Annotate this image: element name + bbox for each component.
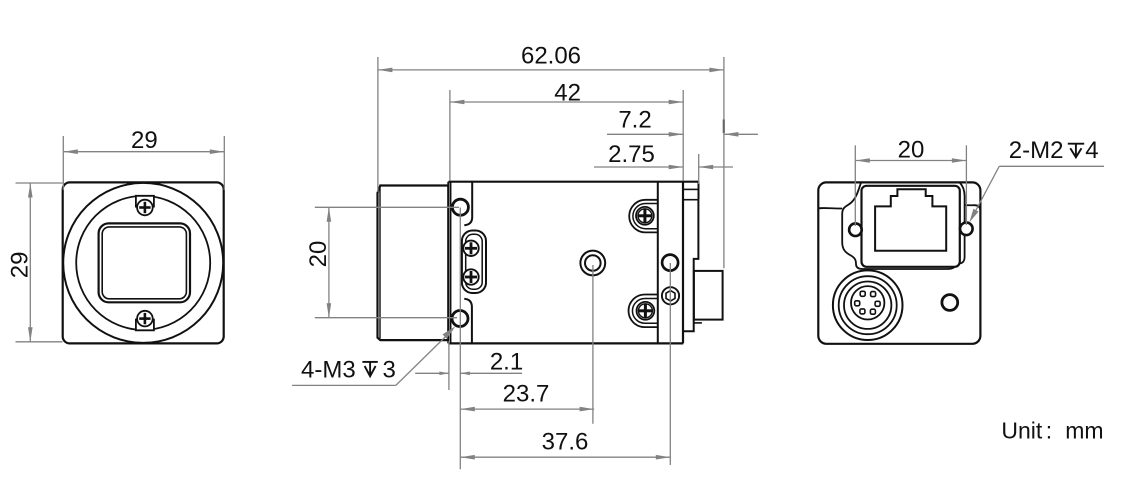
svg-text:7.2: 7.2 bbox=[618, 107, 651, 134]
connector pins bbox=[855, 291, 880, 314]
svg-text:2-M2: 2-M2 bbox=[1009, 137, 1064, 164]
label 4-M3 depth 3 bbox=[301, 357, 396, 384]
top-right screw pad bbox=[629, 200, 658, 233]
camera body outline bbox=[448, 182, 698, 344]
bottom screw cross bbox=[139, 313, 150, 324]
svg-text:37.6: 37.6 bbox=[542, 428, 589, 455]
dimension 29 horizontal (front top) bbox=[63, 136, 224, 190]
right ear line bbox=[965, 205, 981, 210]
tripod mount hole bbox=[580, 251, 605, 276]
dimension 20 (side view) bbox=[315, 207, 459, 317]
svg-text:2.1: 2.1 bbox=[490, 349, 523, 376]
front plate right edge lower bbox=[464, 299, 472, 344]
body bottom edge bbox=[448, 342, 683, 344]
dimension 42 bbox=[450, 90, 683, 181]
top screw tab bbox=[136, 196, 154, 216]
front body square bbox=[63, 182, 224, 343]
svg-text:29: 29 bbox=[7, 252, 34, 279]
svg-text:4: 4 bbox=[1085, 137, 1098, 164]
front plate right edge upper bbox=[464, 182, 472, 226]
M2 screw hole right bbox=[960, 223, 973, 236]
rear boss outline bbox=[842, 182, 964, 269]
island screw upper bbox=[463, 241, 478, 256]
M2 screw hole left bbox=[849, 223, 862, 236]
svg-text:2.75: 2.75 bbox=[608, 141, 655, 168]
rear body bbox=[818, 182, 980, 343]
dimension 37.6 bbox=[460, 263, 670, 465]
dimension 2.75 bbox=[594, 154, 733, 184]
dimension 29 vertical (front left) bbox=[16, 183, 63, 342]
rear mid profile bbox=[683, 200, 698, 332]
bottom-right screw bbox=[637, 302, 655, 320]
dimension 20 (rear) bbox=[855, 145, 966, 226]
top-right screw bbox=[636, 207, 654, 225]
depth symbol bbox=[1068, 144, 1084, 158]
dimension 62.06 bbox=[378, 57, 724, 268]
leader 2-M2 bbox=[972, 166, 1104, 218]
left ear line bbox=[818, 207, 842, 209]
RJ45 plate bbox=[862, 186, 960, 267]
label 2-M2 depth 4 bbox=[1009, 137, 1099, 164]
svg-text:20: 20 bbox=[305, 241, 332, 268]
front plate hole top (M3) bbox=[452, 199, 468, 215]
top screw cross bbox=[139, 202, 150, 213]
power connector rings bbox=[833, 270, 903, 340]
front plate front face bbox=[447, 182, 449, 344]
rear connector block bbox=[694, 271, 723, 323]
bottom screw tab bbox=[136, 311, 154, 330]
dimension 23.7 bbox=[460, 265, 594, 424]
svg-text:3: 3 bbox=[383, 357, 396, 384]
lens flange outer circle bbox=[63, 183, 223, 343]
rear strip line bbox=[657, 182, 659, 344]
black tick top right bbox=[723, 120, 725, 134]
front plate hole bottom (M3) bbox=[452, 311, 468, 327]
sensor window outer bbox=[99, 223, 190, 302]
svg-text:62.06: 62.06 bbox=[521, 42, 581, 69]
leader 4-M3 bbox=[292, 330, 453, 386]
lens barrel bbox=[378, 186, 449, 341]
island screw lower bbox=[463, 269, 478, 284]
front plate screw island bbox=[462, 231, 486, 294]
svg-text:29: 29 bbox=[131, 127, 158, 154]
body top edge bbox=[448, 181, 698, 183]
rear strip hex socket bbox=[662, 287, 679, 304]
svg-text:23.7: 23.7 bbox=[503, 380, 550, 407]
lens mount inner circle bbox=[76, 196, 210, 330]
dimension 2.1 bbox=[415, 208, 522, 470]
bottom-right screw pad bbox=[629, 295, 658, 328]
RJ45 jack opening bbox=[875, 189, 946, 251]
rear top block bbox=[683, 182, 699, 200]
body rear face bbox=[682, 182, 684, 344]
aux hole bbox=[942, 295, 958, 311]
sensor window inner bbox=[102, 227, 186, 299]
svg-text:20: 20 bbox=[898, 137, 925, 164]
rear strip hole round bbox=[662, 255, 678, 271]
svg-text:42: 42 bbox=[554, 79, 581, 106]
dimension 7.2 bbox=[607, 133, 758, 135]
svg-text:4-M3: 4-M3 bbox=[301, 357, 356, 384]
depth symbol bbox=[362, 362, 377, 376]
